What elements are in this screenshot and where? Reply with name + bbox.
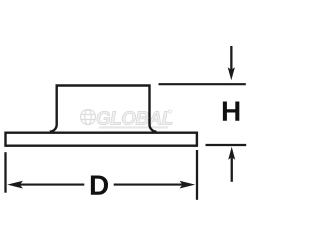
watermark registered mark [168,110,171,113]
H top extension line [159,83,246,85]
watermark GLOBAL text [97,111,172,124]
H bottom extension line [206,144,247,146]
D dimension line right segment [114,184,183,186]
watermark globe icon [81,110,96,125]
D left extension line [4,152,6,193]
label H [223,102,239,121]
D right extension line [196,150,198,200]
watermark small tagline [99,126,168,128]
D right arrowhead [180,181,196,189]
D left arrowhead [7,181,23,189]
H up arrow [228,147,235,182]
label D [91,176,108,195]
H down arrow [228,46,235,80]
flange boss with fillets [50,86,157,132]
flange base plate [6,133,197,146]
D dimension line left segment [18,184,84,186]
